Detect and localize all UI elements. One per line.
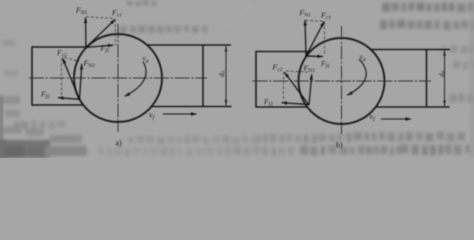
A workpiece circle	[74, 34, 162, 122]
B left parallelogram dashed construction lines	[284, 71, 309, 101]
B rotation arrow	[347, 59, 366, 95]
B labels	[263, 8, 447, 150]
A right die bar	[147, 45, 232, 107]
force F_N2	[80, 64, 82, 100]
svg-text:a): a)	[116, 139, 123, 148]
A left die bar	[32, 47, 87, 105]
B horizontal centerline	[253, 80, 432, 82]
force F_f2	[58, 98, 80, 100]
B left die bar	[256, 52, 310, 108]
left edge dark strip	[0, 96, 3, 158]
A dimension arrowheads	[225, 46, 228, 52]
A feed velocity arrow v_f	[163, 113, 197, 115]
A horizontal centerline	[29, 77, 207, 79]
B dimension arrowheads	[443, 50, 446, 56]
force F_c2 (resultant)	[284, 72, 309, 105]
A left parallelogram dashed construction lines	[62, 58, 80, 97]
force F_f1	[306, 55, 323, 58]
force F_f1	[86, 45, 113, 47]
A vertical centerline	[117, 24, 119, 132]
B top parallelogram dashed construction lines	[306, 20, 325, 55]
A left force parallelogram	[58, 58, 82, 99]
force F_N1	[85, 18, 88, 48]
svg-text:b): b)	[336, 141, 343, 150]
force F_c1 (resultant)	[306, 21, 324, 56]
A top force parallelogram	[86, 18, 116, 48]
B left force parallelogram	[282, 72, 312, 105]
B top force parallelogram	[305, 20, 324, 57]
force F_c1 (resultant)	[86, 19, 115, 47]
paper noise	[0, 0, 474, 158]
A rotation arrow	[125, 62, 146, 97]
crease highlight	[225, 4, 252, 28]
B workpiece circle	[299, 38, 385, 124]
paper background	[0, 0, 474, 158]
A dimension line d	[225, 46, 227, 106]
force F_c2 (resultant)	[63, 58, 80, 99]
A top parallelogram dashed construction lines	[86, 17, 115, 46]
B right die bar	[371, 50, 450, 108]
force F_N1	[305, 20, 306, 56]
force F_f2	[282, 103, 310, 105]
B feed velocity arrow v_f	[381, 118, 411, 120]
B dimension line d	[444, 50, 446, 106]
right edge shading	[471, 0, 474, 158]
force F_N2	[309, 74, 312, 105]
B vertical centerline	[341, 26, 343, 134]
A labels	[40, 6, 227, 148]
